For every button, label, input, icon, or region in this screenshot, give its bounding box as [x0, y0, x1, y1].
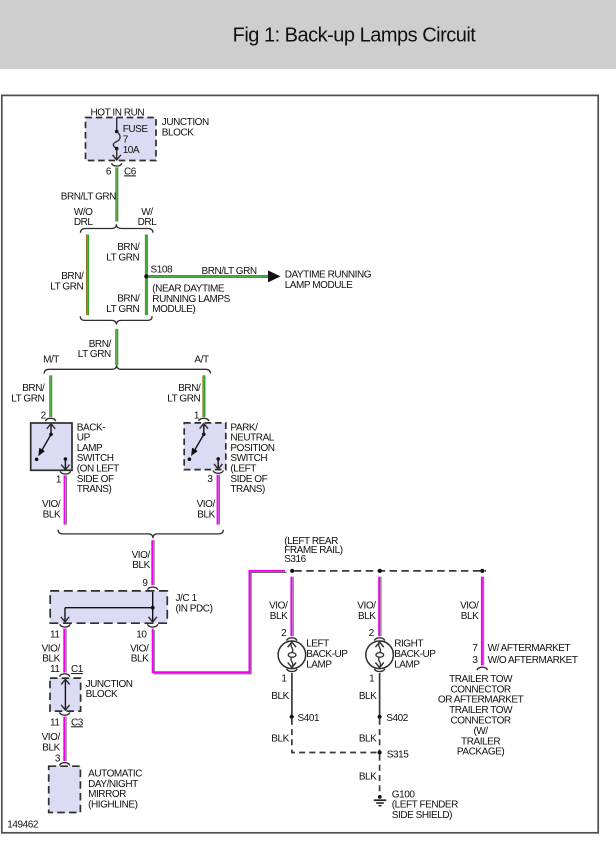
svg-text:VIO/: VIO/	[460, 601, 479, 612]
splice S402	[378, 715, 382, 719]
svg-text:JUNCTION: JUNCTION	[86, 679, 133, 690]
merge brace below DRL branches	[80, 316, 152, 324]
park/neutral switch contacts	[188, 424, 220, 469]
svg-text:11: 11	[50, 664, 60, 675]
svg-text:C3: C3	[71, 717, 84, 728]
svg-text:BLK: BLK	[359, 691, 377, 702]
svg-text:(HIGHLINE): (HIGHLINE)	[88, 800, 138, 811]
splice S401	[290, 715, 294, 719]
svg-text:AUTOMATIC: AUTOMATIC	[88, 768, 142, 779]
arrowhead to module	[268, 270, 281, 282]
svg-text:1: 1	[281, 673, 287, 684]
dashed BLK wire S315 to G100	[379, 755, 381, 792]
svg-text:TRANS): TRANS)	[77, 484, 112, 495]
wire BRN/LT GRN from fuse	[116, 167, 118, 221]
junction block internal wire	[64, 680, 66, 709]
wire VIO/BLK to mirror	[64, 717, 66, 762]
svg-text:7: 7	[123, 135, 129, 146]
wire BLK right lamp	[379, 673, 381, 717]
label VIO/ BLK left	[42, 499, 61, 520]
trailer connector cup	[477, 667, 487, 670]
label W/O DRL	[74, 207, 94, 228]
splice S316	[290, 569, 294, 573]
svg-text:BLOCK: BLOCK	[162, 128, 194, 139]
fuse output arrow	[113, 155, 121, 160]
left back-up lamp	[278, 641, 306, 669]
wire BRN/LT GRN to daytime running lamp module	[148, 276, 268, 278]
pin 10 J/C 1	[148, 624, 158, 627]
svg-text:149462: 149462	[7, 820, 39, 831]
svg-text:BRN/: BRN/	[117, 294, 140, 305]
svg-text:1: 1	[369, 673, 375, 684]
svg-text:BRN/: BRN/	[22, 383, 45, 394]
svg-text:BRN/: BRN/	[178, 383, 201, 394]
svg-text:TRANS): TRANS)	[230, 484, 265, 495]
junction dot right lamp feed	[378, 569, 382, 573]
svg-text:A/T: A/T	[194, 354, 209, 365]
svg-text:BLK: BLK	[132, 560, 150, 571]
label AUTOMATIC DAY/NIGHT MIRROR (HIGHLINE)	[88, 768, 142, 810]
svg-text:LT GRN: LT GRN	[106, 304, 139, 315]
wire VIO/BLK to left back-up lamp	[291, 577, 293, 637]
merge brace VIO/BLK	[58, 530, 223, 538]
label VIO/ BLK pin 10	[130, 643, 149, 664]
svg-text:PACKAGE): PACKAGE)	[457, 747, 504, 758]
svg-text:LT GRN: LT GRN	[106, 252, 139, 263]
wire right branch BRN/LT GRN (W/ DRL)	[145, 235, 147, 316]
svg-text:C1: C1	[71, 664, 84, 675]
svg-text:9: 9	[142, 578, 148, 589]
pin 1 left lamp	[287, 669, 297, 672]
svg-text:MODULE): MODULE)	[152, 304, 195, 315]
svg-text:VIO/: VIO/	[357, 601, 376, 612]
svg-text:SIDE SHIELD): SIDE SHIELD)	[392, 810, 452, 821]
pin 11 J/C 1	[60, 624, 70, 627]
svg-text:LT GRN: LT GRN	[11, 393, 44, 404]
svg-text:VIO/: VIO/	[42, 643, 61, 654]
label DAYTIME RUNNING LAMP MODULE	[285, 270, 372, 291]
svg-text:RUNNING LAMPS: RUNNING LAMPS	[152, 294, 230, 305]
splice S108	[144, 274, 148, 278]
split brace M/T A/T	[44, 365, 210, 373]
junction block C1/C3 box	[50, 678, 81, 711]
right back-up lamp	[366, 641, 394, 669]
svg-text:(IN PDC): (IN PDC)	[176, 603, 213, 614]
pin 7 / pin 3 trailer	[472, 643, 478, 666]
label W/ DRL	[138, 207, 158, 228]
svg-text:JUNCTION: JUNCTION	[162, 117, 209, 128]
ground G100	[374, 795, 386, 806]
svg-text:S401: S401	[298, 713, 320, 724]
svg-text:3: 3	[472, 655, 478, 666]
label VIO/ BLK right lamp	[357, 601, 376, 622]
svg-text:BACK-UP: BACK-UP	[394, 649, 436, 660]
title bar	[0, 0, 616, 69]
svg-text:Fig 1: Back-up Lamps Circuit: Fig 1: Back-up Lamps Circuit	[233, 25, 477, 47]
label FUSE 7 10A	[123, 124, 149, 156]
label G100 (LEFT FENDER SIDE SHIELD)	[392, 789, 458, 821]
svg-text:HOT IN RUN: HOT IN RUN	[91, 107, 145, 118]
svg-text:LT GRN: LT GRN	[78, 349, 111, 360]
label BRN/ LT GRN right lower	[106, 294, 140, 315]
label VIO/ BLK center	[132, 550, 151, 571]
pin 1 right lamp	[374, 669, 384, 672]
label JUNCTION BLOCK	[162, 117, 209, 138]
connector C6 pin 6	[112, 163, 122, 166]
label J/C 1 (IN PDC)	[176, 593, 213, 614]
svg-text:BRN/LT GRN: BRN/LT GRN	[202, 266, 257, 277]
svg-text:DRL: DRL	[138, 217, 158, 228]
svg-text:BLK: BLK	[270, 611, 288, 622]
svg-text:3: 3	[207, 474, 213, 485]
park/neutral position switch box	[184, 423, 226, 470]
svg-text:BLK: BLK	[271, 733, 289, 744]
svg-text:(LEFT FENDER: (LEFT FENDER	[392, 800, 458, 811]
svg-text:S108: S108	[151, 265, 173, 276]
label BRN/ LT GRN A/T branch	[167, 383, 201, 404]
label LEFT BACK-UP LAMP	[306, 639, 348, 671]
label PARK/NEUTRAL POSITION SWITCH (LEFT SIDE OF TRANS)	[230, 422, 274, 495]
wire BLK left lamp	[291, 673, 293, 717]
svg-text:LT GRN: LT GRN	[50, 282, 83, 293]
label VIO/ BLK trailer	[460, 601, 479, 622]
label BRN/ LT GRN M/T branch	[11, 383, 45, 404]
wire BRN/LT GRN to back-up lamp switch	[50, 375, 52, 417]
svg-text:LAMP MODULE: LAMP MODULE	[285, 280, 353, 291]
label BRN/ LT GRN left	[50, 271, 84, 292]
svg-text:2: 2	[281, 628, 287, 639]
svg-text:VIO/: VIO/	[197, 499, 216, 510]
wire VIO/BLK to trailer tow connector	[482, 577, 484, 666]
svg-text:LAMP: LAMP	[394, 659, 420, 670]
dashed bus from S316	[294, 570, 486, 572]
svg-text:LAMP: LAMP	[306, 659, 332, 670]
label VIO/ BLK mirror	[42, 732, 61, 753]
svg-text:BLK: BLK	[359, 733, 377, 744]
svg-text:CONNECTOR: CONNECTOR	[450, 716, 510, 727]
back-up lamp switch S1 box	[31, 423, 72, 470]
svg-text:BRN/LT GRN: BRN/LT GRN	[61, 191, 116, 202]
svg-text:C6: C6	[124, 166, 137, 177]
svg-text:FUSE: FUSE	[123, 124, 149, 135]
svg-text:(W/: (W/	[473, 726, 488, 737]
svg-text:W/O AFTERMARKET: W/O AFTERMARKET	[488, 655, 578, 666]
split brace DRL	[81, 224, 153, 232]
svg-text:S316: S316	[284, 554, 306, 565]
splice S315	[378, 750, 382, 754]
wire BRN/LT GRN to park/neutral switch	[203, 375, 205, 417]
svg-text:OR AFTERMARKET: OR AFTERMARKET	[438, 695, 524, 706]
wire BRN/LT GRN to trans split	[116, 329, 118, 365]
label W/ AFTERMARKET W/O AFTERMARKET	[488, 643, 578, 666]
wire left branch BRN/LT GRN (W/O DRL)	[87, 235, 89, 316]
svg-text:10: 10	[136, 630, 147, 641]
svg-text:VIO/: VIO/	[42, 732, 61, 743]
svg-text:LT GRN: LT GRN	[167, 393, 200, 404]
svg-text:BLK: BLK	[197, 510, 215, 521]
svg-text:11: 11	[50, 630, 60, 641]
label BRN/ LT GRN right upper	[106, 242, 140, 263]
label JUNCTION BLOCK C1	[86, 679, 133, 700]
svg-text:6: 6	[106, 166, 112, 177]
svg-text:BLOCK: BLOCK	[86, 689, 118, 700]
label RIGHT BACK-UP LAMP	[394, 639, 436, 671]
junction dot trailer feed	[480, 569, 484, 573]
svg-text:BACK-UP: BACK-UP	[306, 649, 348, 660]
svg-text:DAYTIME RUNNING: DAYTIME RUNNING	[285, 270, 372, 281]
svg-text:TRAILER: TRAILER	[461, 736, 500, 747]
svg-text:DAY/NIGHT: DAY/NIGHT	[88, 779, 138, 790]
svg-text:M/T: M/T	[43, 354, 59, 365]
svg-text:CONNECTOR: CONNECTOR	[450, 684, 510, 695]
label VIO/ BLK right	[197, 499, 216, 520]
pin 11 connector C3	[60, 712, 70, 715]
svg-text:7: 7	[472, 643, 478, 654]
svg-text:VIO/: VIO/	[130, 643, 149, 654]
junction block (fuse) box	[86, 118, 157, 161]
pin 1 back-up lamp switch	[60, 471, 70, 474]
wire VIO/BLK pin 10 to S316	[153, 571, 287, 674]
svg-text:VIO/: VIO/	[42, 499, 61, 510]
svg-text:2: 2	[369, 628, 375, 639]
junction connector J/C 1 box	[50, 591, 167, 623]
svg-text:(NEAR DAYTIME: (NEAR DAYTIME	[152, 283, 225, 294]
svg-text:S402: S402	[386, 713, 408, 724]
wire VIO/BLK to J/C 1	[152, 540, 154, 585]
svg-text:DRL: DRL	[74, 217, 94, 228]
svg-text:BLK: BLK	[358, 611, 376, 622]
svg-text:G100: G100	[392, 789, 416, 800]
back-up lamp switch contacts	[35, 424, 67, 470]
svg-text:BLK: BLK	[271, 691, 289, 702]
fuse F7 10A symbol	[113, 118, 120, 160]
pin 3 park/neutral switch	[213, 471, 223, 474]
pin 11 connector C1	[50, 664, 84, 675]
svg-text:LEFT: LEFT	[306, 639, 329, 650]
svg-text:BRN/: BRN/	[89, 339, 112, 350]
svg-text:3: 3	[55, 753, 61, 764]
svg-text:RIGHT: RIGHT	[394, 639, 423, 650]
wire VIO/BLK pin 11 to junction block C1	[64, 629, 66, 673]
label BACK-UP LAMP SWITCH (ON LEFT SIDE OF TRANS)	[77, 422, 119, 495]
svg-text:TRAILER TOW: TRAILER TOW	[449, 705, 513, 716]
svg-text:VIO/: VIO/	[269, 601, 288, 612]
svg-text:BRN/: BRN/	[117, 242, 140, 253]
svg-text:BLK: BLK	[42, 654, 60, 665]
automatic day/night mirror box	[49, 766, 81, 812]
svg-text:BLK: BLK	[42, 742, 60, 753]
label VIO/ BLK left lamp	[269, 601, 288, 622]
wire VIO/BLK to right back-up lamp	[379, 577, 381, 637]
svg-text:TRAILER TOW: TRAILER TOW	[449, 674, 513, 685]
svg-text:J/C 1: J/C 1	[176, 593, 198, 604]
svg-text:11: 11	[50, 717, 60, 728]
label BRN/ LT GRN center	[78, 339, 112, 360]
wire VIO/BLK from park/neutral switch	[218, 475, 220, 525]
svg-text:BLK: BLK	[131, 654, 149, 665]
J/C 1 internal bus	[65, 592, 155, 622]
svg-text:1: 1	[56, 475, 62, 486]
svg-text:VIO/: VIO/	[132, 550, 151, 561]
label TRAILER TOW CONNECTOR block	[438, 674, 524, 758]
label (LEFT REAR FRAME RAIL) S316	[284, 536, 343, 565]
dashed BLK wire S402 to S315	[379, 719, 381, 751]
dashed BLK wire S401 to S315	[292, 719, 379, 753]
wire VIO/BLK from back-up lamp switch	[65, 475, 67, 524]
svg-text:BRN/: BRN/	[61, 271, 84, 282]
svg-text:BLK: BLK	[43, 510, 61, 521]
svg-text:BLK: BLK	[359, 772, 377, 783]
svg-text:10A: 10A	[123, 145, 140, 156]
svg-text:W/ AFTERMARKET: W/ AFTERMARKET	[488, 643, 571, 654]
svg-text:S315: S315	[387, 749, 409, 760]
svg-text:BLK: BLK	[461, 611, 479, 622]
label (NEAR DAYTIME RUNNING LAMPS MODULE)	[152, 283, 230, 315]
label VIO/ BLK pin 11	[42, 643, 61, 664]
svg-text:MIRROR: MIRROR	[88, 789, 126, 800]
